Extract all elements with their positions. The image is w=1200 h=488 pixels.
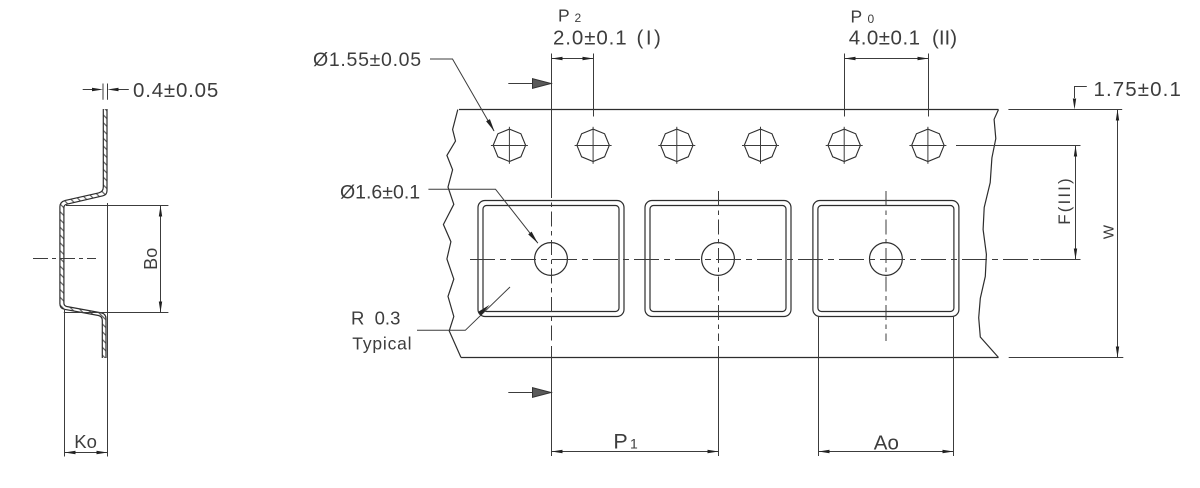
svg-text:Ko: Ko [74,431,97,452]
svg-text:0: 0 [868,12,875,26]
tape cross-section wall (hatched region) [60,109,107,358]
sprocket hole 5 crosshair [826,145,863,147]
pocket 3 outer [813,201,959,317]
Ao left extension line [818,317,820,457]
P2 dimension line [552,58,594,60]
W arrow bottom [1116,347,1119,358]
svg-text:(II): (II) [932,27,957,50]
sprocket holes row [493,129,944,161]
Bo arrow top [159,206,162,217]
tape top edge [459,109,999,111]
1.75 arrow [1073,99,1076,110]
pocket centreline extension (solid) near F dim [1041,259,1081,261]
svg-text:1: 1 [630,436,638,452]
horizontal tape centerline [470,259,1081,261]
P0 arrow left [845,57,856,60]
sprocket hole 4 crosshair [742,145,779,147]
feed direction arrow bottom [508,392,534,394]
sprocket hole 3 crosshair [658,145,695,147]
Bo bottom extension line [64,312,169,314]
0.4 dim arrow right [108,88,119,91]
tape left break line [443,110,461,358]
pocket 2 vertical centerline [718,191,720,341]
svg-text:2: 2 [575,11,582,25]
Bo arrow bottom [159,302,162,313]
centerlines of pockets [470,183,1081,341]
Ao dimension line [819,451,954,453]
pocket 3 center hole [870,243,903,276]
left view horizontal centerline [33,258,96,260]
1.75 leader [1075,87,1087,99]
pocket 2 outer [645,201,791,317]
top edge extension line [1008,109,1122,111]
svg-text:(I): (I) [637,26,664,49]
sprocket centreline extension [956,145,1081,147]
sprocket hole 1 [493,129,525,161]
Ko dimension line [65,452,108,454]
cross-section inner contour line [64,109,107,358]
svg-text:0.4±0.05: 0.4±0.05 [133,79,219,102]
Ao right extension line [953,317,955,457]
pocket 1 inner [483,206,619,312]
P0 left extension line (hole5) [844,54,846,117]
P1 left extension line below tape [551,346,553,456]
P0 dimension line [845,58,929,60]
sprocket hole 4 [744,129,776,161]
P2 left extension line (pocket1 centre above tape) [551,54,553,184]
Bo top extension line [66,205,168,207]
0.4 dim arrow left [92,88,103,91]
0.4 dim line left tail [83,89,93,91]
pocket 2 center hole [702,243,735,276]
W dimension line [1117,110,1119,358]
pocket 1 outer [478,201,624,317]
pocket 3 vertical centerline [885,191,887,341]
Ko right extension line [107,203,109,457]
P1 right extension line below tape [718,346,720,456]
0.4 dim extension lines [102,84,104,100]
F arrow bottom [1074,249,1077,260]
svg-text:P: P [558,6,570,26]
Ao arrow left [819,450,830,453]
Ko arrow right [97,451,108,454]
svg-text:Ao: Ao [874,431,899,454]
svg-text:W: W [1101,224,1118,239]
tape right break line [979,110,999,358]
P1 dimension line [552,451,719,453]
svg-text:2.0±0.1: 2.0±0.1 [553,26,628,49]
P2 right extension line (hole2 centre) [593,54,595,117]
F arrow top [1074,146,1077,157]
P1 arrow right [708,450,719,453]
P0 arrow right [918,57,929,60]
feed direction arrow top [508,83,534,85]
P2 arrow left [552,57,563,60]
pockets [478,201,959,317]
pocket 1 vertical centerline [551,183,553,341]
sprocket hole 2 crosshair [575,145,612,147]
svg-text:R 0.3: R 0.3 [351,308,400,329]
svg-text:Typical: Typical [352,333,412,353]
0.4 dim line right tail [118,89,129,91]
Ko left extension line [64,310,66,457]
svg-text:4.0±0.1: 4.0±0.1 [849,27,921,50]
svg-text:Bo: Bo [141,248,161,270]
P1 arrow left [552,450,563,453]
sprocket hole 6 [912,129,944,161]
bottom edge extension line [1009,357,1124,359]
Ko arrow left [65,451,76,454]
P0 right extension line (hole6) [928,54,930,117]
pocket 3 inner [818,206,954,312]
sprocket hole 3 [661,129,693,161]
tape bottom edge [461,357,999,359]
pocket 1 center hole [535,243,568,276]
svg-text:Ø1.6±0.1: Ø1.6±0.1 [340,182,420,204]
cross-section outer contour line [60,109,103,358]
W arrow top [1116,110,1119,121]
P2 arrow right [583,57,594,60]
sprocket hole 6 crosshair [909,145,946,147]
pocket 2 inner [650,206,786,312]
sprocket hole 5 [828,129,860,161]
svg-text:F(III): F(III) [1055,176,1074,224]
svg-text:Ø1.55±0.05: Ø1.55±0.05 [313,49,422,71]
Bo dimension line [160,206,162,313]
svg-text:P: P [613,430,627,454]
Ao arrow right [943,450,954,453]
sprocket hole 1 crosshair [491,145,528,147]
F dimension line [1075,146,1077,260]
svg-text:1.75±0.1: 1.75±0.1 [1094,78,1182,101]
svg-text:P: P [851,6,863,26]
sprocket hole 2 [577,129,609,161]
